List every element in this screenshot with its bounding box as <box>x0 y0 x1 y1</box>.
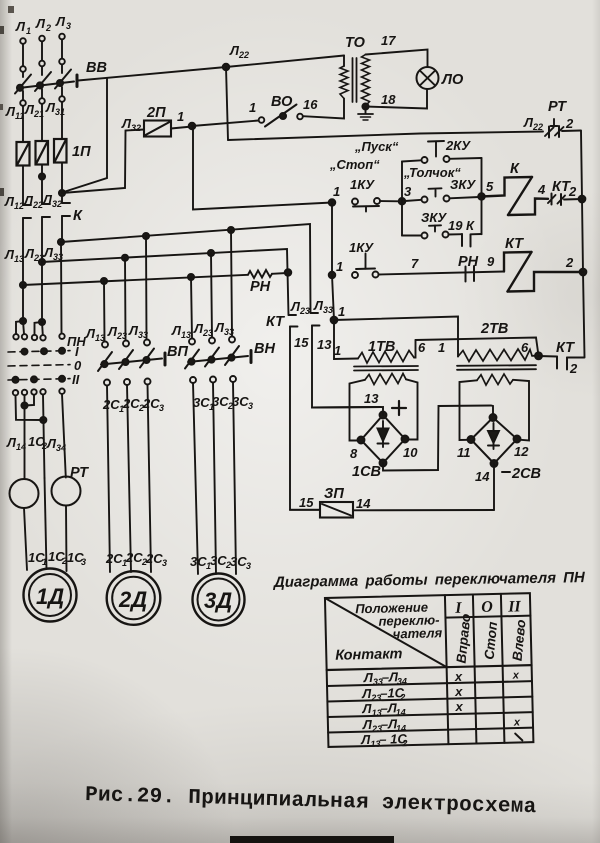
wires RT to motor 1D <box>24 508 27 570</box>
svg-text:2С: 2С <box>102 397 120 412</box>
svg-text:II: II <box>72 372 80 387</box>
svg-text:x: x <box>454 669 463 684</box>
svg-text:5: 5 <box>486 179 494 194</box>
wire node1 down to lower 1KU <box>331 203 333 276</box>
svg-text:К: К <box>73 208 83 224</box>
coil K <box>482 161 549 215</box>
rail L13 (bottom bus) with resistor RN <box>20 269 291 295</box>
wires K contacts to rails <box>22 218 24 285</box>
wires fuses to K contacts <box>22 166 24 206</box>
svg-text:КТ: КТ <box>505 236 524 252</box>
svg-text:РТ: РТ <box>70 465 89 481</box>
wire 2SV bottom to 14 rail <box>493 464 495 511</box>
svg-text:ЛО: ЛО <box>441 72 464 88</box>
svg-text:3: 3 <box>246 561 251 571</box>
svg-text:Вправо: Вправо <box>454 613 474 664</box>
contact KT (6-2) <box>539 340 585 376</box>
svg-text:3Д: 3Д <box>204 588 232 613</box>
svg-text:33: 33 <box>224 327 234 337</box>
svg-text:3: 3 <box>162 558 167 568</box>
svg-text:6: 6 <box>418 340 426 355</box>
svg-text:1: 1 <box>177 109 184 124</box>
rail 6 from 1TV to 2TV <box>416 338 539 356</box>
svg-text:14: 14 <box>356 496 371 511</box>
svg-text:18: 18 <box>381 92 396 107</box>
svg-text:4: 4 <box>537 182 546 197</box>
svg-text:Л: Л <box>15 19 26 34</box>
svg-text:15: 15 <box>294 335 309 350</box>
svg-text:3С: 3С <box>190 554 207 569</box>
svg-text:ВО: ВО <box>271 94 293 110</box>
svg-text:14: 14 <box>475 469 490 484</box>
fuse 2P <box>121 105 171 137</box>
svg-text:Контакт: Контакт <box>335 646 403 664</box>
svg-text:КТ: КТ <box>556 340 575 356</box>
svg-text:1СВ: 1СВ <box>352 464 381 480</box>
svg-text:ЗКУ: ЗКУ <box>450 177 476 192</box>
wires VN to motor 3D <box>193 383 198 574</box>
scan artifacts <box>230 836 394 843</box>
svg-text:2: 2 <box>45 23 51 33</box>
svg-text:чателя: чателя <box>393 625 443 641</box>
svg-text:3С: 3С <box>232 394 249 409</box>
svg-text:I: I <box>75 344 79 359</box>
svg-text:14: 14 <box>396 707 406 717</box>
labels 3C1 3C2 3C3 (lower) <box>190 553 251 571</box>
svg-text:3: 3 <box>248 401 253 411</box>
svg-text:2: 2 <box>565 116 574 131</box>
fuse 1P (three cartridges) <box>17 139 92 166</box>
svg-text:33: 33 <box>138 330 148 340</box>
switch BB (main breaker) <box>15 60 107 94</box>
svg-text:11: 11 <box>457 445 471 460</box>
svg-text:2С: 2С <box>122 396 140 411</box>
svg-text:2С: 2С <box>105 551 123 566</box>
svg-text:К: К <box>466 218 475 233</box>
svg-text:ЗП: ЗП <box>324 486 344 502</box>
terminals L11 L21 L31 <box>5 87 65 121</box>
switch PN top contacts <box>13 334 86 349</box>
svg-text:6: 6 <box>521 340 529 355</box>
button box verticals <box>401 162 403 236</box>
svg-text:ТО: ТО <box>345 35 366 51</box>
wire 2P to node 1 <box>171 127 192 129</box>
right rail (net 2) <box>581 131 585 357</box>
svg-text:КТ: КТ <box>266 314 285 330</box>
motor 3D <box>193 574 245 626</box>
svg-text:32: 32 <box>52 199 62 209</box>
wire node to 2TV primary <box>334 317 458 357</box>
contact KT (4-2) <box>537 179 582 205</box>
svg-text:3: 3 <box>66 21 71 31</box>
terminal L2 <box>35 16 51 66</box>
wire bridge bottom chain to 2SV top <box>383 406 493 471</box>
svg-text:12: 12 <box>14 201 24 211</box>
2TV core <box>457 364 536 367</box>
contactor K main contacts <box>23 203 83 224</box>
contact RN <box>458 254 495 282</box>
labels 3C1 3C2 3C3 <box>193 394 253 412</box>
svg-text:2: 2 <box>568 184 577 199</box>
svg-text:17: 17 <box>381 33 396 48</box>
wire L32 to fuse 2P <box>62 130 144 194</box>
svg-text:1: 1 <box>333 184 340 199</box>
wire to RN contact <box>379 272 505 275</box>
svg-text:34: 34 <box>56 443 66 453</box>
button 2KU (top NO) <box>402 138 482 163</box>
button 1KU (lower NO) <box>349 240 379 278</box>
rectifier bridge 1SV <box>350 391 418 480</box>
svg-text:8: 8 <box>350 446 358 461</box>
svg-text:9: 9 <box>487 254 495 269</box>
svg-text:1: 1 <box>336 259 343 274</box>
svg-text:2С: 2С <box>125 550 143 565</box>
svg-text:2Д: 2Д <box>118 587 147 612</box>
node L22 <box>223 64 230 71</box>
wire node to 1TV primary <box>334 320 358 359</box>
switch VP <box>98 340 188 386</box>
labels L12 L22 L32 <box>4 192 62 211</box>
wire 13 to bridge top <box>312 407 383 415</box>
wire node1 down to button rail <box>193 126 332 210</box>
node 6 <box>535 352 542 359</box>
node L32 junction to 2P <box>59 190 65 196</box>
svg-text:1КУ: 1КУ <box>349 240 374 255</box>
PN position row I <box>8 344 79 359</box>
svg-text:2: 2 <box>401 738 407 748</box>
svg-text:3С: 3С <box>210 553 227 568</box>
control rail L22 down and right to RT <box>226 67 228 140</box>
svg-text:К: К <box>510 161 520 177</box>
PN position row II <box>8 372 80 387</box>
svg-text:2: 2 <box>399 692 405 702</box>
rail junction dots for VP/VN risers <box>101 278 107 284</box>
rail L23 (middle bus) <box>39 249 320 510</box>
svg-text:2: 2 <box>569 361 578 376</box>
wire node1 to VO <box>192 121 259 127</box>
fuse 3P <box>290 486 494 518</box>
svg-text:2: 2 <box>565 255 574 270</box>
contact RT (NC thermal) <box>523 99 581 138</box>
svg-text:33: 33 <box>323 305 333 315</box>
svg-text:15: 15 <box>299 495 314 510</box>
svg-text:19: 19 <box>448 218 463 233</box>
labels L14 1C2 L34 <box>6 434 66 453</box>
svg-text:x: x <box>513 716 521 728</box>
wire VO to TO primary bottom <box>303 99 344 119</box>
1TV core <box>354 365 418 368</box>
svg-text:Влево: Влево <box>510 619 529 662</box>
svg-text:Л: Л <box>55 14 66 29</box>
switch VN risers <box>191 277 192 338</box>
labels 2C1 2C2 2C3 <box>102 396 164 414</box>
rectifier bridge 2SV <box>457 414 541 484</box>
svg-text:3: 3 <box>81 557 86 567</box>
svg-text:1: 1 <box>249 100 256 115</box>
wires terminals to fuses <box>22 106 24 142</box>
wire tap down to L32 node <box>62 79 107 193</box>
1TV secondary <box>350 374 418 441</box>
table PN diagram <box>325 593 534 750</box>
svg-text:РН: РН <box>250 279 271 295</box>
svg-text:ЗКУ: ЗКУ <box>421 210 447 225</box>
svg-text:13: 13 <box>14 254 24 264</box>
svg-text:1Д: 1Д <box>36 584 64 609</box>
svg-text:2СВ: 2СВ <box>511 466 541 482</box>
node 3 <box>399 198 406 205</box>
motor 2D <box>107 571 161 625</box>
svg-text:1: 1 <box>338 304 345 319</box>
svg-text:1: 1 <box>334 343 341 358</box>
svg-text:13: 13 <box>364 391 379 406</box>
svg-text:II: II <box>507 598 522 615</box>
svg-text:Л: Л <box>35 16 46 31</box>
svg-text:23: 23 <box>299 306 310 316</box>
svg-text:22: 22 <box>238 50 249 60</box>
switch VO <box>249 94 318 127</box>
wires VP to motor 2D <box>107 386 110 573</box>
svg-text:O: O <box>481 599 493 616</box>
svg-text:13: 13 <box>317 337 332 352</box>
svg-text:РТ: РТ <box>548 99 567 115</box>
svg-text:x: x <box>454 699 463 714</box>
wire TO 18 to lamp <box>366 89 428 109</box>
svg-text:14: 14 <box>16 442 26 452</box>
ground <box>358 103 373 120</box>
switch VP labels <box>85 323 148 343</box>
svg-text:3: 3 <box>404 184 412 199</box>
transformer 1TV primary <box>358 339 426 363</box>
svg-text:23: 23 <box>116 331 127 341</box>
2TV secondary <box>460 374 530 441</box>
svg-text:1КУ: 1КУ <box>350 177 375 192</box>
svg-text:„Стоп“: „Стоп“ <box>329 157 380 172</box>
terminal L3 <box>55 14 71 64</box>
svg-text:1: 1 <box>42 557 47 567</box>
PN position row 0 <box>8 358 82 373</box>
svg-text:3С: 3С <box>212 394 229 409</box>
button 3KU lower with K aux contact <box>402 210 482 247</box>
svg-text:ВВ: ВВ <box>86 60 107 76</box>
relay RT heaters <box>10 465 90 508</box>
labels 1C1 1C2 1C3 <box>28 549 86 567</box>
labels L13 L23 L33 <box>4 245 63 264</box>
switch VN <box>185 337 275 384</box>
node 1 at button rail <box>329 199 336 206</box>
svg-text:ВН: ВН <box>254 341 275 357</box>
wires to PN switch <box>22 285 24 321</box>
svg-text:Рис.29. Принципиальная электро: Рис.29. Принципиальная электросхема <box>85 784 537 819</box>
switch VN labels <box>171 320 234 340</box>
rail L33 (top bus) <box>58 224 381 408</box>
svg-text:22: 22 <box>532 122 543 132</box>
terminal L1 <box>15 19 31 72</box>
node 5 <box>478 193 485 200</box>
transformer TO <box>340 35 370 106</box>
svg-text:22: 22 <box>32 200 43 210</box>
svg-text:12: 12 <box>514 444 529 459</box>
svg-text:31: 31 <box>55 107 65 117</box>
PN bottom contacts <box>13 389 65 396</box>
button 1KU (upper NC) <box>350 177 380 212</box>
coil KT <box>504 236 583 292</box>
node 1 (control feed) <box>189 123 196 130</box>
labels 2C1 2C2 2C3 (lower) <box>105 550 167 568</box>
svg-text:x: x <box>512 669 520 681</box>
transformer 2TV primary <box>438 321 539 362</box>
svg-text:2С: 2С <box>145 551 163 566</box>
svg-text:1: 1 <box>26 26 31 36</box>
wire labels L33 13 column <box>313 298 333 352</box>
lamp LO <box>417 67 464 89</box>
svg-text:2ТВ: 2ТВ <box>480 321 508 337</box>
svg-text:3С: 3С <box>193 395 210 410</box>
svg-text:2КУ: 2КУ <box>445 138 471 153</box>
svg-text:Стоп: Стоп <box>482 620 501 660</box>
svg-text:3С: 3С <box>230 554 247 569</box>
svg-text:7: 7 <box>411 256 419 271</box>
svg-text:1П: 1П <box>72 144 91 160</box>
svg-text:23: 23 <box>202 328 213 338</box>
wire node1 down to transformers <box>332 275 334 320</box>
svg-text:16: 16 <box>303 97 318 112</box>
wire labels L23 KT 15 column <box>266 299 310 350</box>
svg-text:ВП: ВП <box>167 344 188 360</box>
node 1 lower <box>329 272 336 279</box>
motor 1D <box>24 569 77 622</box>
wire BB to TO primary <box>78 56 344 81</box>
svg-text:32: 32 <box>131 123 141 133</box>
svg-text:1: 1 <box>438 340 445 355</box>
svg-text:10: 10 <box>403 445 418 460</box>
button Tolchok 3KU (middle NO) <box>403 165 479 203</box>
svg-text:Диаграмма работы переключателя: Диаграмма работы переключателя ПН <box>272 569 586 591</box>
switch VP risers <box>103 281 106 341</box>
svg-text:„Пуск“: „Пуск“ <box>354 139 399 154</box>
svg-text:3: 3 <box>159 403 164 413</box>
svg-text:0: 0 <box>74 358 82 373</box>
PN output merge wires <box>16 394 66 478</box>
wire TO 17 to lamp <box>366 50 428 68</box>
svg-text:2П: 2П <box>146 105 166 121</box>
svg-text:x: x <box>454 684 463 699</box>
svg-text:РН: РН <box>458 254 479 270</box>
node 1 transformer feed <box>331 317 338 324</box>
svg-text:2С: 2С <box>142 396 160 411</box>
